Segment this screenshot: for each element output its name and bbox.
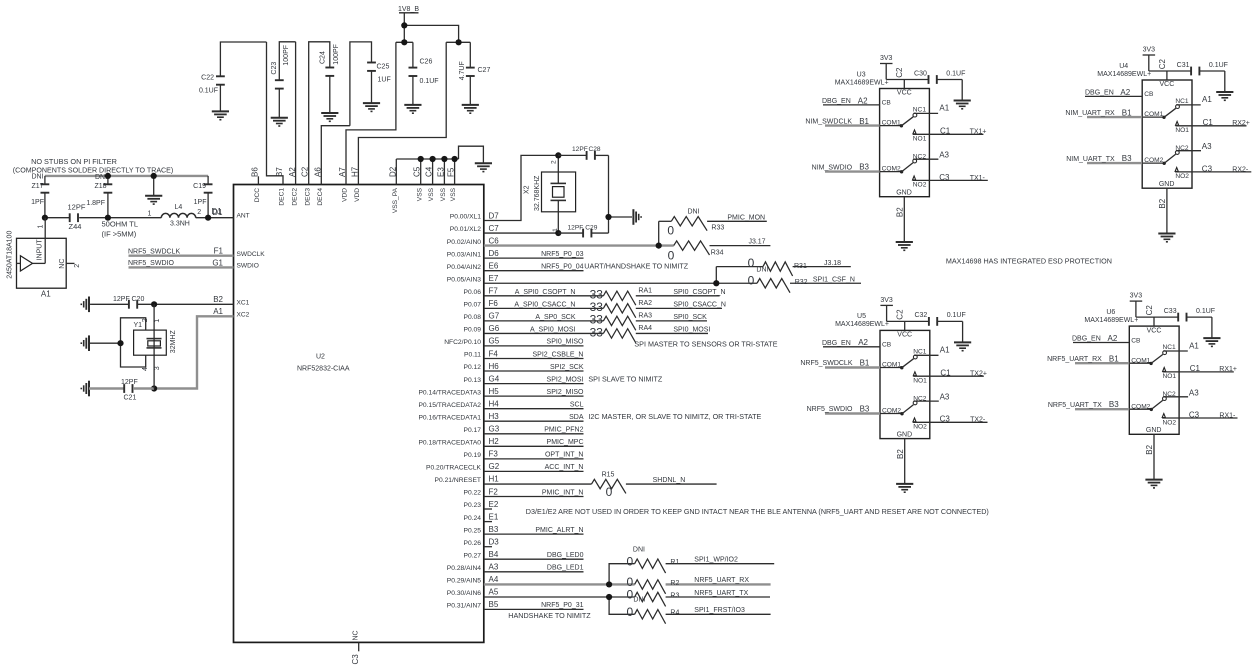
inductor L4 3.3NH <box>148 204 202 227</box>
svg-text:A4: A4 <box>489 575 499 584</box>
svg-text:DBG_LED0: DBG_LED0 <box>547 552 584 559</box>
svg-text:12PF: 12PF <box>121 379 138 386</box>
wire XC1 <box>138 303 234 305</box>
wire net NIM_SWDCLK U3 <box>805 117 879 126</box>
power 3V3 U5 <box>880 297 893 322</box>
wire net P0.02 C6 <box>484 244 674 246</box>
svg-text:NC1: NC1 <box>913 348 927 355</box>
svg-text:GND: GND <box>896 190 912 197</box>
ground C32 U5 <box>954 341 971 343</box>
wire VDD H7 feed <box>358 42 446 184</box>
svg-text:NO1: NO1 <box>1175 127 1189 134</box>
svg-text:G1: G1 <box>212 258 223 267</box>
resistor R4 0 <box>626 605 770 624</box>
crystal Y1 32MHZ <box>134 318 177 371</box>
svg-text:0: 0 <box>606 485 613 499</box>
svg-text:RX1-: RX1- <box>1219 412 1236 419</box>
svg-text:P0.16/TRACEDATA1: P0.16/TRACEDATA1 <box>418 414 481 421</box>
pin A1 NC1 U5 <box>914 346 950 356</box>
svg-text:R31: R31 <box>794 263 807 270</box>
svg-text:VDD: VDD <box>354 188 361 202</box>
svg-text:A3: A3 <box>939 151 949 160</box>
svg-text:RA1: RA1 <box>638 287 652 294</box>
svg-text:P0.23: P0.23 <box>464 502 482 509</box>
resistor R32 0 <box>716 273 861 292</box>
svg-text:3: 3 <box>154 366 161 370</box>
svg-text:NC: NC <box>59 259 66 269</box>
svg-text:A_SPI0_CSOPT_N: A_SPI0_CSOPT_N <box>515 289 576 296</box>
wire net NRF5_UART_TX U6 <box>1048 400 1129 409</box>
svg-text:C3: C3 <box>351 654 360 665</box>
svg-text:C31: C31 <box>1177 62 1190 69</box>
svg-text:NC1: NC1 <box>913 107 927 114</box>
U2 pin B4 P0.27 <box>464 550 584 559</box>
svg-text:NIM_SWDCLK: NIM_SWDCLK <box>805 118 852 125</box>
capacitor C24 100PF <box>309 42 340 185</box>
svg-text:DEC3: DEC3 <box>304 188 311 206</box>
capacitor C19 1PF <box>193 176 212 218</box>
U2 pin A5 P0.30/AIN6 <box>447 588 499 597</box>
svg-text:ANT: ANT <box>237 213 250 220</box>
svg-text:PMIC_MPC: PMIC_MPC <box>547 439 584 446</box>
resistor RA1 33 <box>484 287 726 305</box>
svg-text:A1: A1 <box>1202 95 1212 104</box>
svg-text:SWDIO: SWDIO <box>237 263 259 270</box>
ground XC1 side <box>81 297 129 313</box>
svg-text:12PF: 12PF <box>113 296 130 303</box>
svg-text:PMIC_ALRT_N: PMIC_ALRT_N <box>535 527 583 534</box>
svg-text:VDD: VDD <box>342 188 349 202</box>
svg-text:B4: B4 <box>489 550 499 559</box>
wire XL2 C7 to X2 <box>484 232 559 234</box>
svg-text:TX2+: TX2+ <box>970 370 987 377</box>
svg-text:VSS_PA: VSS_PA <box>392 187 399 213</box>
pin B2 GND U5 <box>896 439 905 484</box>
svg-text:NO2: NO2 <box>913 424 927 431</box>
svg-text:VCC: VCC <box>897 332 912 339</box>
svg-text:DNI: DNI <box>756 266 768 273</box>
svg-text:P0.09: P0.09 <box>464 327 482 334</box>
svg-text:B3: B3 <box>489 525 499 534</box>
svg-text:0: 0 <box>667 223 674 237</box>
switch COM2 U3 <box>880 159 917 173</box>
svg-text:SPI1_FRST/IO3: SPI1_FRST/IO3 <box>694 607 745 614</box>
capacitor C29 12PF <box>558 224 608 237</box>
svg-text:P0.05/AIN3: P0.05/AIN3 <box>447 276 481 283</box>
svg-text:1V8_B: 1V8_B <box>398 6 419 13</box>
svg-text:RA3: RA3 <box>638 312 652 319</box>
U2 pin B3 P0.25 <box>464 525 584 534</box>
svg-text:P0.21/NRESET: P0.21/NRESET <box>435 477 481 484</box>
capacitor C30 0.1UF <box>914 70 965 100</box>
svg-text:C32: C32 <box>914 312 927 319</box>
power 1V8_B <box>398 6 419 25</box>
svg-text:DBG_EN: DBG_EN <box>1072 336 1101 343</box>
resistor RA4 33 <box>484 325 711 343</box>
wire DEC4 jog <box>321 126 350 185</box>
svg-text:E7: E7 <box>489 274 499 283</box>
node RF at antenna <box>42 215 48 221</box>
svg-text:P0.31/AIN7: P0.31/AIN7 <box>447 603 481 610</box>
U2 pin C7 P0.01/XL2 <box>450 224 500 233</box>
svg-text:RX2+: RX2+ <box>1232 120 1250 127</box>
svg-text:C1: C1 <box>940 368 951 377</box>
capacitor C20 12PF <box>113 296 144 309</box>
U2 pin H5 P0.14/TRACEDATA3 <box>418 387 584 396</box>
svg-text:MAX14689EWL+: MAX14689EWL+ <box>835 321 889 328</box>
svg-text:SPI2_MOSI: SPI2_MOSI <box>547 376 584 383</box>
U2 pin H2 P0.18/TRACEDATA0 <box>418 437 583 446</box>
svg-text:R3: R3 <box>670 593 679 600</box>
svg-text:P0.08: P0.08 <box>464 314 482 321</box>
svg-text:NO1: NO1 <box>1163 373 1177 380</box>
svg-text:SDA: SDA <box>569 414 584 421</box>
svg-text:A1: A1 <box>213 307 223 316</box>
svg-text:B3: B3 <box>1109 400 1119 409</box>
wire VCC rail U5 <box>887 309 929 330</box>
svg-text:A1: A1 <box>939 104 949 113</box>
svg-text:DNI: DNI <box>31 174 43 181</box>
svg-text:Z18: Z18 <box>94 183 106 190</box>
svg-text:DBG_LED1: DBG_LED1 <box>547 565 584 572</box>
svg-text:DNI: DNI <box>688 208 700 215</box>
svg-text:3V3: 3V3 <box>880 55 893 62</box>
svg-text:G4: G4 <box>489 374 500 383</box>
antenna A1 2450AT18A100 <box>6 218 81 299</box>
U2 pin D3 P0.26 <box>464 538 500 547</box>
svg-text:R32: R32 <box>795 279 808 286</box>
svg-text:G3: G3 <box>489 425 500 434</box>
svg-text:32.768KHZ: 32.768KHZ <box>534 175 541 211</box>
svg-text:0: 0 <box>748 256 755 270</box>
svg-text:D3: D3 <box>489 538 500 547</box>
svg-text:SPI0_CSOPT_N: SPI0_CSOPT_N <box>673 289 725 296</box>
pin C3 NO2 U6 RX1- <box>1162 410 1237 419</box>
svg-text:0.1UF: 0.1UF <box>1209 62 1228 69</box>
svg-text:SCL: SCL <box>570 402 584 409</box>
capacitor C23 100PF <box>271 42 296 126</box>
wire Y1 pin1/pin3 vertical <box>153 304 155 388</box>
svg-text:C1: C1 <box>940 127 951 136</box>
svg-text:NRF5_P0_03: NRF5_P0_03 <box>541 251 584 258</box>
U2 pin A4 P0.29/AIN5 <box>447 575 499 584</box>
U2 top pin C4 VSS <box>425 166 436 201</box>
wire XC2 from C21 <box>154 316 233 388</box>
svg-text:ACC_INT_N: ACC_INT_N <box>545 464 584 471</box>
wire VCC rail U6 <box>1136 305 1178 326</box>
U2 pin E2 P0.23 <box>464 500 499 509</box>
svg-text:NC1: NC1 <box>1163 344 1177 351</box>
svg-text:C2: C2 <box>1158 59 1167 70</box>
wire net NIM_UART_RX U4 <box>1065 108 1142 117</box>
capacitor C21 12PF <box>121 379 138 402</box>
svg-text:VCC: VCC <box>1147 327 1162 334</box>
svg-text:B5: B5 <box>489 600 499 609</box>
svg-text:A3: A3 <box>940 393 950 402</box>
node E7 branch <box>713 280 719 286</box>
svg-text:DEC1: DEC1 <box>279 188 286 206</box>
svg-text:B3: B3 <box>860 404 870 413</box>
svg-text:U5: U5 <box>857 313 866 320</box>
svg-text:C2: C2 <box>1145 305 1154 316</box>
wire net A5 NRF5_UART_TX <box>484 596 635 598</box>
svg-text:A5: A5 <box>489 588 499 597</box>
U2 pin B2 XC1 <box>213 295 249 306</box>
node X2 pin1 <box>555 230 561 236</box>
svg-text:A1: A1 <box>940 346 950 355</box>
svg-text:100PF: 100PF <box>283 45 290 66</box>
svg-text:2450AT18A100: 2450AT18A100 <box>6 231 13 279</box>
wire XL1 D7 to X2 <box>484 155 559 220</box>
ground pi filter <box>145 176 162 204</box>
svg-text:VCC: VCC <box>1160 81 1175 88</box>
pin C1 NO1 U4 RX2+ <box>1176 118 1250 127</box>
svg-text:B2: B2 <box>213 295 223 304</box>
svg-text:VSS: VSS <box>428 187 435 201</box>
node VSS E3 <box>441 156 447 162</box>
capacitor C22 0.1UF <box>199 42 267 120</box>
capacitor C31 0.1UF <box>1177 62 1228 92</box>
svg-text:F1: F1 <box>214 247 224 256</box>
svg-text:R34: R34 <box>711 249 724 256</box>
node 1V8_B top <box>401 22 407 28</box>
capacitor C32 0.1UF <box>914 312 965 342</box>
svg-text:NRF5_P0_31: NRF5_P0_31 <box>541 602 584 609</box>
IC U5 MAX14689EWL <box>835 313 930 438</box>
pin C1 NO1 U6 RX1+ <box>1163 364 1237 373</box>
svg-text:E2: E2 <box>489 500 499 509</box>
pin C3 NO2 U3 TX1- <box>913 173 988 182</box>
switch COM1 U5 <box>880 355 917 369</box>
switch COM2 U6 <box>1129 397 1166 411</box>
svg-text:C3: C3 <box>940 415 951 424</box>
svg-text:MAX14689EWL+: MAX14689EWL+ <box>1084 317 1138 324</box>
svg-text:3V3: 3V3 <box>880 297 893 304</box>
U2 pin F2 P0.22 <box>464 487 584 496</box>
svg-text:XC2: XC2 <box>237 312 250 319</box>
svg-text:R1: R1 <box>670 559 679 566</box>
U2 pin G3 P0.17 <box>464 425 584 434</box>
svg-text:SPI0_MOSI: SPI0_MOSI <box>673 326 710 333</box>
svg-text:NO1: NO1 <box>913 135 927 142</box>
svg-text:NRF52832-CIAA: NRF52832-CIAA <box>297 366 350 373</box>
svg-text:NRF5_SWDIO: NRF5_SWDIO <box>807 406 853 413</box>
crystal X2 32.768KHZ <box>523 155 575 233</box>
U2 top pin D2 VSS_PA <box>388 166 399 213</box>
svg-text:C22: C22 <box>201 75 214 82</box>
svg-text:P0.06: P0.06 <box>464 289 482 296</box>
svg-text:1PF: 1PF <box>194 199 207 206</box>
svg-text:B1: B1 <box>859 117 869 126</box>
svg-text:VSS: VSS <box>450 187 457 201</box>
svg-text:C7: C7 <box>489 224 500 233</box>
svg-text:UART/HANDSHAKE TO NIMITZ: UART/HANDSHAKE TO NIMITZ <box>584 261 688 270</box>
U2 pin A1 XC2 <box>213 307 249 318</box>
svg-text:(IF >5MM): (IF >5MM) <box>102 229 137 238</box>
svg-text:D3/E1/E2 ARE NOT USED IN ORDER: D3/E1/E2 ARE NOT USED IN ORDER TO KEEP G… <box>526 507 989 516</box>
ground C30 U3 <box>954 100 971 102</box>
svg-text:A3: A3 <box>1202 142 1212 151</box>
U2 bottom pin C3 NC <box>351 630 360 664</box>
U2 pin E1 P0.24 <box>464 512 499 521</box>
ground B2 U5 <box>896 483 913 485</box>
svg-text:G2: G2 <box>489 462 500 471</box>
ground B2 U3 <box>896 241 913 243</box>
capacitor C26 0.1UF <box>404 42 438 113</box>
svg-text:NO STUBS ON PI FILTER: NO STUBS ON PI FILTER <box>31 157 117 166</box>
svg-text:A_SPI0_MOSI: A_SPI0_MOSI <box>530 326 576 333</box>
svg-text:P0.30/AIN6: P0.30/AIN6 <box>447 590 481 597</box>
svg-text:P0.27: P0.27 <box>464 552 482 559</box>
svg-text:U4: U4 <box>1119 63 1128 70</box>
svg-text:VCC: VCC <box>897 90 912 97</box>
resistor R15 0 <box>484 472 717 499</box>
wire VSS bus <box>396 146 483 184</box>
svg-text:A2: A2 <box>858 338 868 347</box>
svg-text:NO2: NO2 <box>1163 419 1177 426</box>
svg-text:A_SPI0_CSACC_N: A_SPI0_CSACC_N <box>514 301 575 308</box>
switch COM1 U6 <box>1129 351 1166 365</box>
svg-text:DEC2: DEC2 <box>292 188 299 206</box>
svg-text:NRF5_SWDCLK: NRF5_SWDCLK <box>800 360 852 367</box>
node VDD A7 branch <box>401 39 407 45</box>
svg-text:P0.19: P0.19 <box>464 452 482 459</box>
capacitor C27 4.7UF <box>459 42 490 113</box>
svg-text:A3: A3 <box>489 563 499 572</box>
svg-text:G5: G5 <box>489 337 500 346</box>
pin C3 NO2 U5 TX2- <box>913 415 988 424</box>
svg-text:A3: A3 <box>1189 388 1199 397</box>
svg-text:P0.01/XL2: P0.01/XL2 <box>450 226 482 233</box>
wire net NRF5_SWDIO to U2 <box>128 260 234 267</box>
node Y1 gnd <box>117 340 123 346</box>
svg-text:XC1: XC1 <box>237 300 250 307</box>
U2 pin G2 P0.20/TRACECLK <box>426 462 584 471</box>
svg-text:MAX14689EWL+: MAX14689EWL+ <box>1097 71 1151 78</box>
svg-text:0.1UF: 0.1UF <box>199 88 218 95</box>
svg-text:NRF5_P0_04: NRF5_P0_04 <box>541 264 584 271</box>
node XC1/C20 <box>151 301 157 307</box>
svg-text:NFC2/P0.10: NFC2/P0.10 <box>444 339 481 346</box>
wire VCC rail U3 <box>886 67 928 88</box>
wire net P0.05 E7 <box>484 282 717 284</box>
svg-text:DCC: DCC <box>254 188 261 203</box>
wire Y1 ground loop <box>121 318 146 367</box>
svg-text:F3: F3 <box>489 450 499 459</box>
svg-text:DBG_EN: DBG_EN <box>822 340 851 347</box>
svg-text:P0.00/XL1: P0.00/XL1 <box>450 214 482 221</box>
node R33/R34 junction <box>656 243 662 249</box>
U2 top pin F5 VSS <box>447 167 458 201</box>
svg-text:0: 0 <box>626 605 633 619</box>
U2 pin G7 P0.08 <box>464 312 500 321</box>
svg-text:P0.02/AIN0: P0.02/AIN0 <box>447 239 481 246</box>
node X2 pin2 <box>555 152 561 158</box>
svg-text:NIM_UART_TX: NIM_UART_TX <box>1066 156 1115 163</box>
svg-text:P0.18/TRACEDATA0: P0.18/TRACEDATA0 <box>418 440 481 447</box>
svg-text:MAX14698 HAS INTEGRATED ESD PR: MAX14698 HAS INTEGRATED ESD PROTECTION <box>946 257 1112 266</box>
pin B2 GND U6 <box>1145 434 1154 479</box>
svg-text:NRF5_UART_RX: NRF5_UART_RX <box>1047 356 1102 363</box>
svg-text:C21: C21 <box>124 395 137 402</box>
svg-text:NRF5_UART_TX: NRF5_UART_TX <box>1048 402 1102 409</box>
resistor RA3 33 <box>484 312 707 330</box>
svg-text:4.7UF: 4.7UF <box>459 61 466 80</box>
wire pi-filter top bus <box>45 175 208 177</box>
wire C22 to DEC1 <box>267 42 284 185</box>
svg-text:B1: B1 <box>1122 108 1132 117</box>
svg-text:A1: A1 <box>1189 341 1199 350</box>
wire net A4 NRF5_UART_RX <box>484 583 635 585</box>
svg-text:B3: B3 <box>1122 154 1132 163</box>
svg-text:3V3: 3V3 <box>1130 293 1143 300</box>
svg-text:32MHZ: 32MHZ <box>170 330 177 354</box>
wire R4 branch <box>609 597 635 614</box>
U2 top pin E3 VSS <box>436 167 447 202</box>
svg-text:SPI SLAVE TO NIMITZ: SPI SLAVE TO NIMITZ <box>588 375 662 384</box>
capacitor Z17 1PF DNI <box>31 174 49 218</box>
svg-text:R15: R15 <box>602 472 615 479</box>
svg-text:H4: H4 <box>489 400 500 409</box>
IC U4 MAX14689EWL <box>1097 63 1192 188</box>
pin A3 NC2 U3 <box>913 151 949 160</box>
svg-text:OPT_INT_N: OPT_INT_N <box>545 452 584 459</box>
svg-text:A1: A1 <box>41 289 51 298</box>
svg-text:C33: C33 <box>1164 308 1177 315</box>
svg-text:TX1+: TX1+ <box>970 129 987 136</box>
U2 pin D7 P0.00/XL1 <box>450 211 500 220</box>
svg-text:DEC4: DEC4 <box>317 188 324 206</box>
pin A1 NC1 U6 <box>1163 341 1199 351</box>
pin B2 GND U3 <box>896 197 905 242</box>
svg-text:P0.17: P0.17 <box>464 427 482 434</box>
svg-text:NIM_UART_RX: NIM_UART_RX <box>1065 110 1115 117</box>
wire net DBG_EN U6 <box>1072 334 1129 343</box>
U2 top pin C5 VSS <box>413 166 424 201</box>
svg-text:DBG_EN: DBG_EN <box>822 98 851 105</box>
resistor R3 0 DNI <box>626 588 770 607</box>
ground C21 side <box>81 381 124 397</box>
svg-text:E1: E1 <box>489 512 499 521</box>
U2 pin H1 P0.21/NRESET <box>435 475 500 484</box>
svg-text:C29: C29 <box>585 224 597 231</box>
node A4/R1 <box>606 581 612 587</box>
svg-text:G7: G7 <box>489 312 500 321</box>
wire net DBG_EN U5 <box>822 338 880 347</box>
wire VCC rail U4 <box>1149 59 1191 80</box>
svg-text:P0.13: P0.13 <box>464 377 482 384</box>
resistor R1 0 DNI <box>626 547 774 574</box>
capacitor Z18 1.8PF DNI <box>86 174 112 218</box>
U2 pin H4 P0.15/TRACEDATA2 <box>418 400 583 409</box>
svg-text:CB: CB <box>1131 337 1141 344</box>
svg-text:P0.24: P0.24 <box>464 515 482 522</box>
svg-text:RX1+: RX1+ <box>1219 366 1237 373</box>
resistor R2 0 <box>626 575 770 594</box>
svg-text:C23: C23 <box>271 62 278 75</box>
svg-text:0: 0 <box>626 554 633 568</box>
svg-text:J3.18: J3.18 <box>824 260 841 267</box>
U2 pin D1 ANT <box>212 208 249 219</box>
U2 pin F1 SWDCLK <box>214 247 266 258</box>
svg-text:0.1UF: 0.1UF <box>1196 308 1215 315</box>
resistor R33 0 DNI <box>659 208 767 245</box>
svg-text:P0.28/AIN4: P0.28/AIN4 <box>447 565 481 572</box>
svg-text:C30: C30 <box>914 70 927 77</box>
U2 pin G6 P0.09 <box>464 324 500 333</box>
U2 pin F6 P0.07 <box>464 299 499 308</box>
resistor RA2 33 <box>484 300 726 318</box>
